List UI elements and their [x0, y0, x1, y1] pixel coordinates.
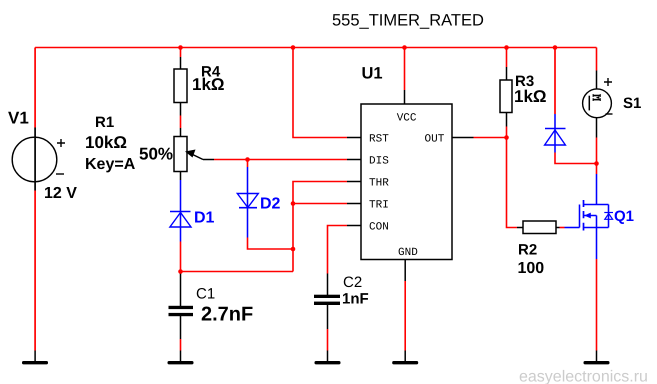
- svg-text:C1: C1: [196, 285, 215, 302]
- svg-text:1kΩ: 1kΩ: [514, 87, 547, 106]
- wire rail to S1: [596, 48, 598, 71]
- op-amp U1 555 timer: [347, 64, 474, 281]
- svg-text:THR: THR: [369, 178, 389, 190]
- wire OUT to R3 node: [474, 137, 507, 139]
- wire rail to R4: [180, 48, 182, 58]
- diode D1: [170, 180, 215, 242]
- capacitor C2: [314, 274, 369, 330]
- svg-text:555_TIMER_RATED: 555_TIMER_RATED: [332, 12, 484, 30]
- wire THR vertical: [293, 182, 347, 272]
- wire D2 cathode to THR net: [248, 238, 294, 250]
- svg-text:GND: GND: [398, 247, 418, 259]
- wire C2 to ground: [327, 329, 329, 351]
- title 555_TIMER_RATED: [332, 12, 484, 30]
- svg-text:VCC: VCC: [397, 113, 417, 125]
- node D3-S1-drain: [594, 161, 599, 166]
- svg-text:D2: D2: [260, 196, 281, 213]
- svg-text:RST: RST: [369, 134, 389, 146]
- wire R2 to Q1 gate: [560, 227, 565, 229]
- svg-text:R2: R2: [518, 242, 537, 259]
- node THR-TRI: [291, 201, 296, 206]
- wire D3 anode to drain node: [555, 153, 597, 164]
- ground under C2: [315, 351, 341, 365]
- svg-text:C2: C2: [343, 274, 362, 291]
- wire THR net to C1 node: [181, 271, 294, 273]
- resistor R3: [500, 67, 547, 127]
- wire Q1 source to ground: [596, 259, 598, 351]
- svg-text:easyelectronics.ru: easyelectronics.ru: [519, 369, 648, 384]
- svg-text:1kΩ: 1kΩ: [192, 75, 225, 94]
- svg-text:DIS: DIS: [369, 156, 389, 168]
- ground under C1: [168, 351, 194, 365]
- ground under U1: [392, 351, 418, 365]
- resistor R2: [517, 221, 560, 277]
- wire drain node to Q1 drain: [596, 164, 598, 175]
- transistor Q1 MOSFET: [565, 174, 635, 259]
- svg-text:R1: R1: [95, 114, 114, 131]
- svg-text:U1: U1: [362, 64, 383, 82]
- potentiometer R1: [85, 114, 214, 180]
- node wiper-D2-DIS: [245, 157, 250, 162]
- node rail-R3: [504, 45, 509, 50]
- node OUT-R3-R2: [504, 135, 509, 140]
- wire rail to R3: [506, 48, 508, 68]
- resistor R4: [174, 57, 225, 116]
- watermark: [519, 369, 648, 384]
- svg-text:50%: 50%: [139, 145, 173, 164]
- wire C1 to ground: [180, 339, 182, 351]
- wire DIS net to D2: [247, 160, 249, 168]
- diode D2: [237, 167, 280, 238]
- svg-text:CON: CON: [369, 222, 389, 234]
- node rail-RST: [291, 45, 296, 50]
- svg-text:V1: V1: [8, 109, 29, 128]
- node R1-D1-C1: [178, 269, 183, 274]
- voltage source V1: [8, 109, 77, 203]
- wire CON to C2: [328, 226, 348, 274]
- capacitor C1: [169, 272, 254, 340]
- motor S1: [583, 71, 642, 138]
- svg-text:OUT: OUT: [425, 134, 445, 146]
- svg-text:100: 100: [518, 260, 545, 277]
- svg-text:10kΩ: 10kΩ: [85, 133, 127, 152]
- svg-text:TRI: TRI: [369, 200, 389, 212]
- wire V1 plus to rail: [34, 48, 36, 128]
- wire V1 minus to ground: [34, 191, 36, 351]
- svg-text:Q1: Q1: [614, 208, 634, 225]
- wire OUT node down to R2: [507, 138, 518, 228]
- wire S1 minus to drain node: [596, 138, 598, 164]
- wire rail to VCC: [404, 48, 406, 91]
- node rail-D3: [553, 45, 558, 50]
- svg-text:1nF: 1nF: [342, 291, 369, 308]
- wire GND pin to ground: [404, 281, 406, 351]
- ground under Q1: [584, 351, 610, 365]
- svg-text:S1: S1: [623, 95, 641, 112]
- wire top power rail: [35, 47, 596, 49]
- svg-text:D1: D1: [194, 210, 215, 227]
- wire R3 to OUT node: [506, 127, 508, 138]
- wire rail to RST: [293, 48, 347, 138]
- node rail-VCC: [402, 45, 407, 50]
- wire R1 wiper to DIS: [214, 159, 347, 161]
- node THR-D2: [291, 247, 296, 252]
- svg-text:12 V: 12 V: [44, 185, 77, 202]
- wire TRI: [293, 203, 347, 205]
- svg-text:Key=A: Key=A: [85, 156, 136, 173]
- node rail-R4: [178, 45, 183, 50]
- wire R4 to R1: [180, 116, 182, 129]
- svg-text:2.7nF: 2.7nF: [201, 304, 253, 326]
- ground under V1: [22, 351, 48, 365]
- diode D3: [545, 114, 566, 153]
- wire rail to D3: [554, 48, 556, 115]
- wire D1 anode to node: [180, 242, 182, 272]
